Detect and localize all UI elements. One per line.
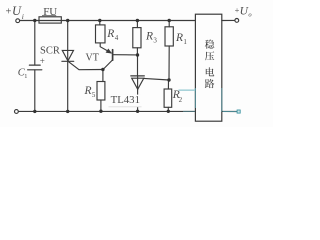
svg-text:TL431: TL431 — [111, 94, 140, 106]
terminal +Ui input — [16, 19, 20, 23]
teal scan artifact smear near R2 — [179, 89, 196, 91]
wire ref node to R2 — [167, 80, 169, 89]
blue handle square — [237, 110, 240, 113]
junction R2 bottom — [167, 110, 170, 113]
svg-text:FU: FU — [43, 6, 57, 18]
node B: R3 / VT base / TL431 cathode — [136, 53, 139, 56]
resistor R3 wire from rail — [136, 21, 138, 28]
TL431 reference wire — [144, 78, 169, 80]
junction C1 bottom — [33, 110, 36, 113]
resistor R1 wire from rail — [168, 21, 170, 27]
teal tint block left edge — [194, 88, 196, 108]
underline under FU — [42, 15, 56, 17]
svg-text:R: R — [175, 32, 183, 44]
svg-text:4: 4 — [115, 34, 119, 42]
wire top rail — [20, 20, 196, 22]
capacitor C1 bottom plate — [28, 69, 42, 71]
svg-text:2: 2 — [179, 96, 183, 104]
terminal +Uo output — [235, 19, 239, 23]
junction R5 bottom — [99, 110, 102, 113]
resistor R3 body — [133, 28, 141, 48]
block text 路 — [205, 79, 215, 88]
svg-text:SCR: SCR — [40, 45, 60, 56]
resistor R1 body — [165, 27, 173, 46]
TL431 cathode wire — [137, 55, 139, 76]
node gate: SCR gate / VT collector / R5 — [101, 68, 104, 71]
svg-text:VT: VT — [86, 53, 99, 64]
svg-text:i: i — [22, 12, 24, 21]
svg-text:1: 1 — [183, 38, 187, 46]
wire capacitor C1 branch — [34, 21, 36, 66]
TL431 cathode bar — [131, 75, 145, 77]
block 稳压电路 regulator box — [195, 14, 221, 121]
wire R3 to node B — [136, 48, 138, 55]
block text 电 — [206, 67, 215, 76]
terminal bottom-left — [15, 110, 19, 114]
teal tint block right edge — [221, 88, 223, 112]
SCR gate wire — [68, 62, 103, 70]
fuse FU — [39, 17, 61, 23]
svg-text:U: U — [12, 4, 22, 18]
svg-text:+: + — [40, 56, 45, 66]
svg-text:3: 3 — [153, 36, 157, 44]
TL431 anode wire to bottom rail — [137, 76, 139, 112]
svg-text:o: o — [248, 11, 252, 18]
label +Ui — [6, 4, 24, 21]
wire node to R5 — [102, 70, 104, 82]
wire R5 to bottom rail — [100, 100, 102, 111]
teal tint rail near block — [183, 110, 195, 112]
capacitor C1 top plate — [29, 64, 40, 66]
resistor R5 body — [97, 82, 105, 101]
resistor R4 body — [96, 25, 106, 43]
label +Uo — [235, 5, 253, 18]
label C1 — [18, 67, 28, 80]
transistor VT emitter wire — [100, 43, 111, 53]
junction R3 top — [136, 19, 139, 22]
wire block to +Uo — [222, 19, 235, 21]
transistor VT collector wire — [103, 60, 113, 70]
resistor R2 body — [164, 89, 172, 107]
resistor R4 wire from rail — [99, 21, 101, 25]
node ref: R1 / R2 / TL431 reference — [167, 78, 170, 81]
block text 稳 — [205, 40, 214, 49]
teal tint bottom-right stub — [223, 111, 237, 113]
svg-text:R: R — [145, 30, 153, 42]
transistor VT base bar — [112, 50, 114, 61]
white label box behind TL431 text — [109, 95, 142, 107]
junction SCR cathode bottom — [66, 110, 69, 113]
TL431 triangle — [132, 78, 144, 89]
svg-text:U: U — [240, 5, 249, 17]
wire R2 to bottom rail — [167, 107, 169, 111]
block text 压 — [205, 51, 214, 60]
SCR anode-cathode wire — [67, 21, 69, 112]
svg-text:1: 1 — [24, 73, 27, 80]
junction C1 top — [33, 19, 36, 22]
svg-text:5: 5 — [92, 91, 96, 99]
svg-text:R: R — [106, 28, 114, 40]
wire block bottom-right stub — [222, 110, 237, 112]
svg-text:R: R — [84, 85, 92, 97]
wire C1 to bottom rail — [34, 70, 36, 112]
junction R4 top — [98, 19, 101, 22]
junction SCR anode — [66, 19, 69, 22]
SCR cathode bar — [62, 60, 74, 62]
svg-text:+: + — [6, 7, 12, 18]
faint bottom edge of TL431 label box — [109, 106, 142, 108]
wire bottom rail — [19, 110, 196, 112]
junction R1 top — [168, 19, 171, 22]
junction TL431 anode bottom — [136, 110, 139, 113]
wire R1 to ref node — [168, 46, 170, 80]
transistor VT emitter arrowhead — [106, 49, 113, 54]
transistor VT base wire to node B — [113, 54, 137, 56]
SCR thyristor triangle — [62, 50, 73, 61]
